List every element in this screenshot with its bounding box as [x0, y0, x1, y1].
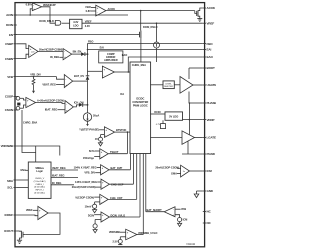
wire DCIN_DSLD vertical — [140, 11, 142, 31]
svg-text:10mV: 10mV — [85, 204, 92, 208]
svg-text:IN_REG: IN_REG — [50, 55, 59, 59]
svg-text:CHRG_I: CHRG_I — [35, 184, 44, 186]
svg-text:0.8V: 0.8V — [86, 9, 91, 13]
pin NC1 — [203, 210, 212, 214]
svg-text:VREF: VREF — [26, 208, 33, 212]
svg-text:VFB_DIV: VFB_DIV — [30, 72, 41, 76]
wire PGND — [182, 141, 203, 154]
svg-text:SHIFTER: SHIFTER — [164, 86, 173, 88]
block U5 DC/DC converter PWM logic — [130, 62, 151, 154]
label IBAT_REG out — [51, 174, 78, 178]
svg-text:NI %: NI % — [89, 149, 95, 153]
svg-text:ICOUT: ICOUT — [4, 229, 13, 233]
pin BOOT — [203, 66, 215, 70]
wire VDDP — [183, 119, 203, 135]
svg-text:2.5V: 2.5V — [113, 239, 118, 243]
amp U12 icref buffer — [38, 206, 48, 219]
amp A3 voltage loop — [64, 75, 72, 88]
pin VDDSMB — [1, 144, 17, 148]
svg-text:PGND: PGND — [207, 152, 216, 156]
diode D1 — [81, 52, 88, 56]
pin GND — [203, 189, 214, 193]
driver U7 ugate — [174, 77, 203, 94]
svg-text:WAKEUP: WAKEUP — [43, 3, 56, 7]
svg-text:LEVEL: LEVEL — [165, 83, 172, 85]
wire BOOT — [189, 68, 203, 79]
comparator C4 chg ocp — [101, 179, 109, 189]
wire VREF net to pin — [82, 22, 203, 24]
label VBAT_REG out — [51, 166, 78, 170]
wire A4 out — [73, 105, 79, 107]
pin ICOUT — [4, 229, 17, 233]
svg-text:DA: DA — [120, 92, 124, 96]
svg-text:IN_REG: IN_REG — [52, 181, 61, 185]
comparator C7 vddsmb uvlo — [126, 229, 137, 240]
svg-text:TSHUT: TSHUT — [110, 150, 119, 154]
wire A2 out — [72, 53, 81, 55]
wire C6 out — [109, 154, 140, 218]
pin NC2 — [203, 221, 212, 225]
svg-text:FBO: FBO — [85, 5, 90, 9]
wire ACIN line — [16, 14, 128, 16]
svg-text:CHRG_ENA: CHRG_ENA — [132, 63, 146, 67]
label 20mV CSOP c4 — [72, 185, 101, 189]
svg-text:CSBP: CSBP — [5, 42, 13, 46]
pin VDDP — [203, 118, 215, 122]
svg-text:FBO: FBO — [88, 40, 93, 44]
wire U1 in2 from ACIN — [30, 9, 32, 15]
amp A4 charge current loop — [65, 101, 73, 114]
svg-text:ICH_ON: ICH_ON — [74, 100, 84, 104]
svg-text:BN_EN: BN_EN — [73, 49, 82, 53]
comparator U2 acok — [96, 5, 106, 16]
sense amp A5 csop cson — [26, 97, 36, 107]
svg-text:ACOK: ACOK — [207, 6, 216, 10]
wire G1 to LDO — [62, 22, 70, 24]
label VFB_DIV c3 — [84, 171, 100, 175]
wire U4 out to box — [128, 71, 130, 73]
label VDDSMB c7 — [109, 230, 126, 234]
svg-text:VFB_DIV: VFB_DIV — [84, 171, 95, 175]
transistor Q3 icout — [17, 231, 26, 240]
wire VDDSMB to U11 — [17, 146, 60, 156]
source V2 10mV — [85, 202, 100, 213]
svg-text:EAI: EAI — [100, 45, 105, 49]
svg-text:VREF: VREF — [207, 21, 215, 25]
svg-text:BAT_OVP: BAT_OVP — [111, 166, 123, 170]
svg-text:(6 bit DAC): (6 bit DAC) — [34, 192, 45, 195]
svg-text:150mVpp: 150mVpp — [83, 156, 95, 160]
wire CSBN to A1 — [17, 54, 29, 58]
wire U12 out loop — [25, 213, 60, 234]
svg-text:INPUT_I: INPUT_I — [35, 190, 44, 192]
ground GND pin — [194, 191, 203, 198]
pin CSON — [5, 108, 17, 112]
wire C2 out — [108, 153, 127, 155]
amp U10 current monitor — [155, 165, 202, 177]
current source I2 20uA — [83, 113, 91, 126]
svg-text:EAO: EAO — [122, 53, 128, 57]
pin EAI — [203, 48, 212, 52]
transistor Q1 ACOK open drain — [195, 8, 203, 19]
amp A2 input limit — [63, 49, 72, 60]
wire EAI node to U4 — [88, 70, 103, 72]
pin EAO — [203, 55, 214, 59]
svg-text:FBO: FBO — [207, 42, 214, 46]
svg-text:4.7V: 4.7V — [156, 124, 161, 126]
label DCIN c6 — [88, 213, 101, 217]
svg-text:AMPLIFIER: AMPLIFIER — [104, 58, 118, 62]
wire C4 out — [109, 154, 133, 185]
svg-text:104% X VBAT_REG: 104% X VBAT_REG — [74, 166, 97, 170]
svg-text:VBAT_REG: VBAT_REG — [42, 82, 56, 86]
svg-text:fn9141b: fn9141b — [187, 243, 196, 246]
pin SDA — [7, 179, 17, 183]
svg-text:IBAT_REG: IBAT_REG — [52, 174, 65, 178]
svg-text:BTSTOK: BTSTOK — [116, 128, 126, 132]
ground Q3 — [17, 240, 22, 243]
pin LGATE — [203, 136, 216, 140]
svg-text:LDO: LDO — [73, 24, 78, 28]
svg-text:DCIN: DCIN — [88, 213, 94, 217]
comparator C3 bat ovp — [101, 165, 109, 175]
svg-text:BAT_SHORT: BAT_SHORT — [147, 208, 163, 212]
wire ACOK net — [106, 10, 195, 12]
label 150mVpp — [83, 156, 100, 160]
label IN_REG out — [51, 181, 74, 185]
svg-text:PWM LOGIC: PWM LOGIC — [133, 104, 148, 108]
svg-text:ENA: ENA — [21, 168, 27, 172]
svg-text:CHRG_V: CHRG_V — [35, 178, 45, 180]
label ENA — [21, 168, 29, 172]
pin CSBP — [5, 42, 17, 46]
svg-text:PHASE: PHASE — [207, 101, 217, 105]
svg-text:CHRG_ENA: CHRG_ENA — [23, 120, 37, 124]
svg-text:EN: EN — [9, 33, 13, 37]
svg-text:BAT_OV: BAT_OV — [74, 74, 84, 78]
wire SDA to U11 — [17, 179, 29, 181]
wire EAI net — [87, 49, 203, 51]
svg-text:(6 bit DAC): (6 bit DAC) — [34, 186, 45, 189]
error amplifier box label — [99, 51, 123, 63]
svg-text:GMA: GMA — [171, 171, 177, 175]
svg-text:20mV(CSBP-CSBN): 20mV(CSBP-CSBN) — [39, 47, 63, 51]
pin ICM — [203, 169, 213, 173]
diode D2 voltage loop — [86, 54, 90, 81]
svg-text:EAO: EAO — [207, 55, 214, 59]
svg-text:5V LDO: 5V LDO — [169, 114, 178, 118]
wire A1 out to A2 — [38, 50, 63, 52]
diode D3 current loop — [79, 81, 89, 113]
wire C7 out — [137, 154, 143, 235]
wire FBO net — [88, 44, 203, 55]
pin SCL — [7, 186, 17, 190]
amp A1 input current sense — [29, 45, 38, 57]
svg-text:VFB: VFB — [181, 207, 186, 211]
driver U9 lgate — [150, 131, 203, 144]
source V4 2.5V — [113, 237, 126, 245]
svg-text:0.8V: 0.8V — [26, 3, 31, 7]
transistor Q2 dcin disable — [137, 31, 141, 63]
pin EN — [9, 33, 17, 37]
svg-text:VDDP: VDDP — [207, 118, 215, 122]
wire VFB line — [17, 76, 65, 79]
wire EN line — [16, 34, 137, 36]
svg-text:CSBN: CSBN — [5, 57, 13, 61]
ground Q1 — [197, 19, 202, 22]
svg-text:DCIN: DCIN — [154, 110, 160, 114]
svg-text:4V: 4V — [95, 137, 98, 141]
svg-text:ICM: ICM — [207, 169, 213, 173]
label VREF u12 — [26, 208, 38, 212]
svg-text:CSON: CSON — [5, 108, 13, 112]
svg-text:LGATE: LGATE — [207, 136, 217, 140]
svg-text:VDDSMB: VDDSMB — [1, 144, 14, 148]
svg-text:EAI: EAI — [207, 48, 212, 52]
wire ICREF to U12 — [17, 214, 38, 217]
sense junction block — [17, 103, 20, 106]
label IBAT_REG A4 — [45, 108, 65, 112]
label 104% VBAT_REG — [74, 166, 101, 170]
amp U13 bat short — [164, 207, 175, 217]
label FBO U2 in — [85, 5, 95, 9]
pin VFB — [7, 75, 17, 79]
svg-text:ACIN: ACIN — [6, 13, 13, 17]
comparator C2 tshut — [100, 149, 108, 159]
block U8 5V LDO — [150, 110, 182, 120]
pin ACIN — [6, 13, 17, 17]
wire sense tap down — [22, 110, 36, 153]
svg-text:SCL: SCL — [7, 186, 13, 190]
wire C3 out — [109, 154, 130, 170]
op-amp U4 error amp — [102, 66, 114, 78]
svg-text:(11 bit DAC): (11 bit DAC) — [34, 180, 46, 183]
wire A5 out to A4 — [36, 103, 65, 104]
pin UGATE — [203, 83, 217, 87]
svg-text:IBAT_REG: IBAT_REG — [45, 108, 58, 112]
pin CSOP — [5, 95, 17, 99]
source V5 u13 — [175, 215, 187, 227]
svg-text:A=20mV(CSOP-CSON): A=20mV(CSOP-CSON) — [37, 99, 64, 103]
svg-text:3.3V: 3.3V — [73, 20, 78, 24]
svg-text:DC/DC: DC/DC — [136, 97, 144, 101]
label boot phase — [79, 128, 104, 132]
block U6 level shifter — [150, 81, 174, 89]
svg-text:20uA: 20uA — [93, 113, 99, 117]
pin PGND — [203, 152, 216, 156]
svg-text:DCIN_DSLD: DCIN_DSLD — [39, 19, 54, 23]
svg-text:CSOP: CSOP — [5, 95, 13, 99]
svg-text:Logic: Logic — [36, 169, 43, 173]
sense resistor circle R2 — [16, 97, 26, 101]
svg-text:GND: GND — [207, 189, 214, 193]
wire PHASE — [189, 92, 203, 120]
source V1 4V — [95, 135, 105, 146]
label VBAT_REG A3 — [42, 82, 64, 86]
svg-text:VREF: VREF — [85, 19, 92, 23]
wire CSBP to A1 — [17, 44, 29, 49]
block U11 SMBus logic — [28, 162, 51, 198]
svg-text:20mV(CSOP-CSON): 20mV(CSOP-CSON) — [72, 185, 96, 189]
svg-text:SDA: SDA — [7, 179, 14, 183]
label half csop-cson — [75, 196, 100, 200]
svg-text:DCIN_DSLD: DCIN_DSLD — [143, 25, 158, 29]
svg-text:CONVERTER: CONVERTER — [132, 100, 148, 104]
wire SCL to U11 — [17, 187, 29, 189]
pin CSBN — [5, 57, 17, 61]
svg-text:145% X IBAT_REG: 145% X IBAT_REG — [75, 180, 97, 184]
wire wakeup out — [42, 7, 56, 23]
pin ACOK — [203, 6, 216, 10]
chip body border — [15, 3, 205, 247]
wire C5 out — [108, 154, 137, 200]
pin ICREF — [4, 213, 16, 217]
sense resistor circle R3 — [16, 105, 26, 110]
current source I1 — [154, 42, 160, 62]
pin DCIN — [6, 23, 17, 27]
svg-text:UGATE: UGATE — [207, 83, 217, 87]
svg-text:VDDSMB: VDDSMB — [109, 230, 120, 234]
wire U13 out — [146, 154, 164, 212]
svg-text:VBAT_REG: VBAT_REG — [52, 166, 66, 170]
wire VREF branch vertical — [156, 22, 158, 42]
gate G1 buffer — [55, 21, 61, 26]
svg-text:20mV(CSOP-CSON): 20mV(CSOP-CSON) — [155, 166, 179, 170]
source V3 c6 — [93, 220, 101, 233]
comparator C1 boot uvlo — [104, 127, 114, 138]
wire A3 out to D2 — [73, 80, 88, 82]
label 0.8V U2 in — [86, 9, 96, 13]
svg-text:BOOT: BOOT — [207, 66, 216, 70]
svg-text:½(CSOP-CSON): ½(CSOP-CSON) — [75, 196, 94, 200]
label 145% IBAT_REG — [75, 180, 101, 184]
svg-text:ICM: ICM — [183, 218, 188, 222]
pin VREF — [203, 21, 215, 25]
comparator C6 dcin uvlo — [101, 212, 109, 222]
svg-text:ICREF: ICREF — [4, 213, 13, 217]
svg-text:VFB: VFB — [7, 75, 14, 79]
svg-text:3.3V: 3.3V — [85, 24, 90, 28]
svg-text:DCIN: DCIN — [6, 23, 13, 27]
pin FBO — [203, 42, 213, 46]
regulator U3 3.3V LDO — [70, 19, 82, 28]
svg-text:¼(BTST-PHASE): ¼(BTST-PHASE) — [79, 128, 99, 132]
comparator U1 wakeup — [32, 3, 41, 11]
wire C1 out — [115, 131, 130, 154]
label VFB u13 — [175, 207, 186, 211]
wire U4 out to EAO — [114, 57, 202, 73]
label 0.8V U1 ref — [26, 3, 33, 7]
pin PHASE — [203, 101, 217, 105]
resistor R1 divider — [32, 77, 35, 94]
capacitor sub box U8b — [156, 120, 166, 128]
label IN_REG — [50, 55, 63, 59]
comparator C5 chg ucp — [100, 194, 108, 204]
